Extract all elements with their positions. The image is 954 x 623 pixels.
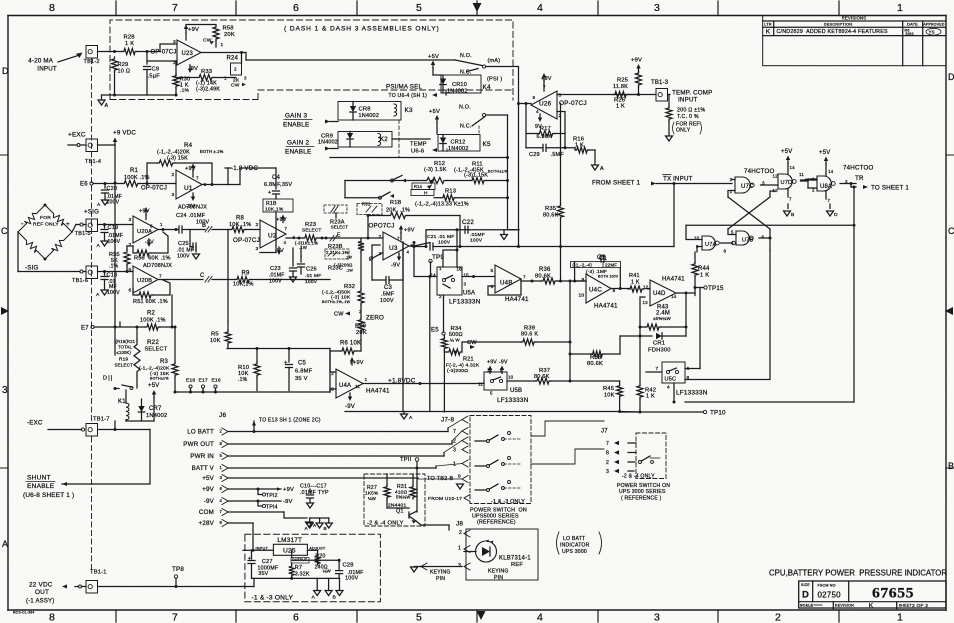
svg-text:1: 1 <box>897 612 903 623</box>
svg-text:6: 6 <box>129 288 132 294</box>
svg-text:+9V: +9V <box>353 360 364 366</box>
svg-text:TB1-5: TB1-5 <box>73 231 91 237</box>
svg-text:3: 3 <box>464 282 467 287</box>
svg-text:TR: TR <box>855 175 864 182</box>
svg-text:B: B <box>948 461 954 471</box>
svg-text:10: 10 <box>508 375 514 380</box>
svg-text:.1W: .1W <box>299 245 307 250</box>
svg-text:.5MF: .5MF <box>381 292 395 298</box>
svg-text:INPUT: INPUT <box>37 66 57 73</box>
svg-text:+28V: +28V <box>199 520 215 527</box>
svg-text:10 Ω: 10 Ω <box>118 69 131 75</box>
svg-text:1N4002: 1N4002 <box>318 140 338 146</box>
svg-text:C21: C21 <box>427 234 437 240</box>
svg-text:OUT: OUT <box>35 589 49 596</box>
svg-text:SCALE: SCALE <box>800 604 814 608</box>
svg-text:R3: R3 <box>160 359 169 365</box>
svg-text:( REFERENCE ): ( REFERENCE ) <box>621 496 662 502</box>
svg-text:Q1: Q1 <box>396 509 404 515</box>
svg-text:DESCRIPTION: DESCRIPTION <box>824 23 852 27</box>
svg-text:REF ONLY: REF ONLY <box>33 222 59 228</box>
svg-text:-1 & -3 ONLY: -1 & -3 ONLY <box>252 594 294 601</box>
svg-text:OP-07CJ: OP-07CJ <box>233 237 260 244</box>
svg-text:4: 4 <box>667 385 670 390</box>
svg-text:3: 3 <box>559 93 562 99</box>
svg-text:SHUNT: SHUNT <box>27 475 51 482</box>
svg-text:B: B <box>202 223 206 229</box>
svg-text:(-3)1.15K: (-3)1.15K <box>464 173 488 179</box>
svg-text:¼W: ¼W <box>323 568 332 573</box>
svg-text:E16: E16 <box>212 378 221 384</box>
svg-text:11: 11 <box>478 382 483 387</box>
svg-text:R1B: R1B <box>266 201 277 207</box>
svg-text:12: 12 <box>773 174 779 179</box>
svg-text:8: 8 <box>49 2 55 14</box>
svg-text:2: 2 <box>439 294 442 299</box>
svg-text:FOR: FOR <box>40 215 51 221</box>
svg-text:100V: 100V <box>107 290 120 296</box>
svg-text:PSI/MA SEL: PSI/MA SEL <box>386 84 422 91</box>
svg-text:TP8: TP8 <box>172 566 184 573</box>
svg-text:BOTH±1%: BOTH±1% <box>488 170 508 174</box>
svg-text:100K .1%: 100K .1% <box>140 318 166 324</box>
svg-text:C28: C28 <box>343 562 354 568</box>
svg-text:N.O.: N.O. <box>460 53 472 59</box>
svg-text:UPS 3000: UPS 3000 <box>562 549 587 555</box>
svg-text:2: 2 <box>459 530 462 536</box>
svg-text:100V: 100V <box>177 254 190 260</box>
svg-text:R35: R35 <box>545 206 556 212</box>
svg-text:C26: C26 <box>306 267 317 273</box>
svg-text:TPII: TPII <box>400 457 412 463</box>
svg-text:R1: R1 <box>130 168 139 174</box>
svg-text:74HCTOO: 74HCTOO <box>843 165 874 172</box>
svg-text:7: 7 <box>789 197 792 202</box>
svg-text:+5V: +5V <box>428 54 439 60</box>
svg-text:.1%: .1% <box>109 264 119 270</box>
svg-text:1: 1 <box>160 222 163 227</box>
svg-text:REVISION: REVISION <box>835 604 854 608</box>
svg-text:C: C <box>200 273 205 279</box>
svg-text:7: 7 <box>453 429 456 435</box>
svg-text:D: D <box>802 590 809 601</box>
svg-text:5: 5 <box>491 268 494 274</box>
svg-text:3: 3 <box>453 448 456 454</box>
svg-text:OP-07CJ: OP-07CJ <box>559 100 587 107</box>
svg-text:6: 6 <box>533 95 536 100</box>
svg-text:A: A <box>409 415 413 421</box>
svg-text:7: 7 <box>606 441 609 447</box>
svg-text:GAIN 2: GAIN 2 <box>287 140 309 147</box>
svg-text:R24: R24 <box>227 56 239 62</box>
svg-text:+9V: +9V <box>404 228 415 234</box>
svg-text:(-1,-2,-4): (-1,-2,-4) <box>573 263 593 268</box>
svg-text:C25: C25 <box>178 241 189 247</box>
svg-text:RCS-CL-394: RCS-CL-394 <box>13 611 35 615</box>
svg-text:10K: 10K <box>604 393 615 399</box>
svg-text:1: 1 <box>730 189 733 194</box>
svg-text:U25: U25 <box>283 548 296 555</box>
svg-text:5: 5 <box>129 267 132 273</box>
svg-text:E18: E18 <box>186 378 195 384</box>
svg-text:ENABLE: ENABLE <box>283 122 309 129</box>
svg-text:K4: K4 <box>483 84 491 91</box>
svg-text:.1W: .1W <box>346 269 353 273</box>
svg-text:+5V: +5V <box>148 383 159 389</box>
svg-text:(-3) 1.5K: (-3) 1.5K <box>424 167 447 173</box>
svg-text:R14: R14 <box>414 184 423 189</box>
svg-text:J7-8: J7-8 <box>441 417 454 424</box>
svg-text:E: E <box>337 233 341 239</box>
svg-text:7: 7 <box>656 366 659 371</box>
svg-text:-: - <box>21 219 24 228</box>
svg-text:ONLY: ONLY <box>676 128 691 134</box>
svg-text:CR12: CR12 <box>451 140 466 146</box>
svg-text:(-1 ASSY): (-1 ASSY) <box>26 599 54 605</box>
svg-text:U2: U2 <box>268 233 277 240</box>
svg-text:1 K: 1 K <box>616 104 625 110</box>
svg-text:4: 4 <box>536 109 539 114</box>
svg-text:C19: C19 <box>108 225 119 231</box>
svg-text:B: B <box>324 526 327 531</box>
svg-text:(-1,-2,-4)13.33 K±1%: (-1,-2,-4)13.33 K±1% <box>415 202 469 208</box>
svg-text:TO U6-4 (SH 1): TO U6-4 (SH 1) <box>389 93 428 99</box>
svg-text:K2: K2 <box>380 137 388 143</box>
svg-text:-1 & -3 ONLY: -1 & -3 ONLY <box>491 499 525 505</box>
svg-text:E5: E5 <box>431 328 439 334</box>
svg-text:C10---C17: C10---C17 <box>300 484 327 490</box>
svg-text:C18: C18 <box>107 273 118 279</box>
svg-text:TB1-1: TB1-1 <box>90 570 107 576</box>
svg-text:U4B: U4B <box>500 280 513 287</box>
svg-text:CR10: CR10 <box>452 82 467 88</box>
svg-text:7: 7 <box>523 275 526 280</box>
svg-text:8: 8 <box>150 224 153 229</box>
svg-text:INDICATOR: INDICATOR <box>560 543 590 549</box>
svg-text:-9V: -9V <box>391 263 400 269</box>
svg-text:¼W: ¼W <box>368 496 377 501</box>
svg-text:7: 7 <box>159 274 162 279</box>
svg-text:BOTH±.1%,.1W: BOTH±.1%,.1W <box>322 300 351 304</box>
svg-text:2: 2 <box>256 222 259 228</box>
svg-text:80.6K: 80.6K <box>543 213 559 219</box>
svg-text:4: 4 <box>537 2 543 14</box>
svg-text:OP-07CJ: OP-07CJ <box>141 186 167 192</box>
svg-text:C: C <box>948 226 954 236</box>
svg-text:R4: R4 <box>184 142 193 149</box>
svg-text:A: A <box>312 595 316 601</box>
svg-text:ENABLE: ENABLE <box>27 483 55 490</box>
svg-text:4: 4 <box>537 612 543 623</box>
svg-text:.01MF TYP: .01MF TYP <box>300 490 329 496</box>
svg-text:+SIG: +SIG <box>84 209 99 216</box>
svg-text:REVISIONS: REVISIONS <box>842 16 866 21</box>
svg-text:U7A: U7A <box>705 242 716 248</box>
svg-text:1 K: 1 K <box>646 394 655 400</box>
svg-text:CW: CW <box>231 83 240 89</box>
svg-text:U4D: U4D <box>653 291 666 297</box>
svg-text:ENABLE: ENABLE <box>285 149 311 156</box>
svg-text:KLB7314-1: KLB7314-1 <box>499 556 531 562</box>
svg-text:YS: YS <box>929 29 935 34</box>
svg-text:10: 10 <box>579 293 585 299</box>
svg-text:.1%: .1% <box>180 88 189 94</box>
svg-text:22MF: 22MF <box>605 263 617 268</box>
svg-text:+: + <box>268 190 271 196</box>
svg-text:11.8K: 11.8K <box>613 84 628 90</box>
svg-text:4: 4 <box>407 250 410 255</box>
svg-text:TB1-6: TB1-6 <box>72 278 88 284</box>
svg-text:R21: R21 <box>463 357 474 363</box>
svg-text:R41: R41 <box>629 273 640 279</box>
svg-text:80.6K: 80.6K <box>587 361 603 367</box>
svg-text:U6-6: U6-6 <box>411 149 424 155</box>
svg-text:TPI4: TPI4 <box>266 505 278 511</box>
svg-text:100V: 100V <box>470 238 483 244</box>
svg-text:R8: R8 <box>236 216 245 222</box>
svg-text:TB1-4: TB1-4 <box>85 159 101 165</box>
svg-text:-9V: -9V <box>283 499 293 505</box>
svg-text:LTR: LTR <box>764 23 772 27</box>
svg-text:TO SHEET 1: TO SHEET 1 <box>871 185 909 192</box>
svg-text:HA4741: HA4741 <box>366 388 390 395</box>
svg-text:±5%¼W: ±5%¼W <box>653 316 671 321</box>
svg-text:A: A <box>600 166 604 172</box>
svg-text:C22: C22 <box>462 219 474 226</box>
svg-text:13: 13 <box>643 300 649 305</box>
svg-text:U4C: U4C <box>589 287 602 294</box>
svg-text:J7: J7 <box>601 429 608 435</box>
svg-text:(-1,-2,-4)20K: (-1,-2,-4)20K <box>139 366 170 372</box>
svg-text:22 VDC: 22 VDC <box>29 582 53 589</box>
svg-text:100V: 100V <box>107 200 120 206</box>
svg-text:INPUT: INPUT <box>673 176 693 183</box>
svg-text:R5: R5 <box>211 332 219 338</box>
svg-text:.01 MF: .01 MF <box>438 234 454 240</box>
svg-text:02750: 02750 <box>818 591 842 600</box>
svg-text:+9 VDC: +9 VDC <box>113 130 136 137</box>
svg-text:(mA): (mA) <box>488 58 501 64</box>
svg-text:R22: R22 <box>147 339 159 346</box>
svg-text:LF13333N: LF13333N <box>497 397 529 404</box>
svg-text:SELECT: SELECT <box>115 363 134 368</box>
svg-text:J8: J8 <box>456 521 463 528</box>
svg-text:+9V: +9V <box>202 486 214 493</box>
svg-text:TEMP. COMP: TEMP. COMP <box>672 90 713 97</box>
svg-text:HA4741: HA4741 <box>662 277 685 283</box>
svg-text:-2 & -4 ONLY: -2 & -4 ONLY <box>367 521 404 527</box>
svg-text:TB1-7: TB1-7 <box>93 417 110 423</box>
svg-text:3: 3 <box>256 246 259 252</box>
svg-text:CW: CW <box>334 312 344 318</box>
svg-text:PIN: PIN <box>494 575 503 581</box>
svg-text:BATT V: BATT V <box>192 465 215 472</box>
svg-text:F(-2,-4) 4.32K: F(-2,-4) 4.32K <box>446 363 480 369</box>
svg-text:.1%: .1% <box>238 377 248 383</box>
svg-text:FSCM NO: FSCM NO <box>818 583 836 587</box>
svg-text:1 K: 1 K <box>700 273 709 279</box>
svg-text:100K .1%: 100K .1% <box>124 175 150 181</box>
svg-text:INPUT: INPUT <box>678 97 698 104</box>
svg-text:N.O.: N.O. <box>459 105 471 111</box>
svg-text:R13: R13 <box>445 189 456 195</box>
svg-text:R2: R2 <box>147 311 156 317</box>
svg-text:TO E13 SH 1 (ZONE 2C): TO E13 SH 1 (ZONE 2C) <box>259 418 321 424</box>
svg-text:TB1-3: TB1-3 <box>651 80 669 86</box>
svg-text:U1: U1 <box>184 185 193 192</box>
svg-text:HA4741: HA4741 <box>505 296 529 303</box>
svg-text:D: D <box>948 72 954 82</box>
svg-text:R19: R19 <box>119 357 128 362</box>
svg-text:ZERO: ZERO <box>366 315 384 322</box>
svg-text:U20B: U20B <box>137 278 152 284</box>
svg-text:SIZE: SIZE <box>801 583 810 587</box>
svg-text:6: 6 <box>293 2 299 14</box>
svg-text:-2 & -4 ONLY: -2 & -4 ONLY <box>622 474 655 480</box>
svg-text:PWR IN: PWR IN <box>190 453 214 460</box>
svg-text:3: 3 <box>220 475 223 480</box>
svg-text:J6: J6 <box>219 412 227 419</box>
svg-text:3: 3 <box>606 469 609 475</box>
svg-text:H: H <box>424 191 428 196</box>
svg-text:R6 10K: R6 10K <box>340 341 361 347</box>
svg-text:1: 1 <box>439 266 442 271</box>
svg-text:5: 5 <box>731 230 734 235</box>
svg-text:5: 5 <box>416 612 422 623</box>
svg-text:C: C <box>1 226 8 236</box>
svg-text:14: 14 <box>828 169 834 174</box>
svg-text:C1: C1 <box>599 256 608 262</box>
svg-text:+: + <box>66 221 70 228</box>
svg-text:1: 1 <box>458 546 461 552</box>
svg-text:K: K <box>766 28 771 35</box>
svg-text:6.8MF: 6.8MF <box>295 369 313 375</box>
svg-text:FROM U10-17: FROM U10-17 <box>428 496 462 502</box>
svg-text:LO BATT: LO BATT <box>187 429 214 436</box>
svg-text:20K, .1%: 20K, .1% <box>386 208 410 214</box>
svg-text:5: 5 <box>416 2 422 14</box>
svg-text:8: 8 <box>724 249 727 254</box>
svg-text:1N4002: 1N4002 <box>359 113 380 119</box>
svg-text:7: 7 <box>196 176 199 181</box>
svg-text:1 K: 1 K <box>575 143 584 149</box>
svg-text:2: 2 <box>129 242 132 248</box>
svg-text:1: 1 <box>365 377 368 382</box>
svg-text:74HCTOO: 74HCTOO <box>744 168 775 175</box>
svg-text:UPS 3000 SERIES: UPS 3000 SERIES <box>619 489 666 495</box>
svg-text:-9V: -9V <box>345 404 355 410</box>
svg-text:3: 3 <box>654 612 660 623</box>
svg-text:1N4002: 1N4002 <box>447 89 468 95</box>
svg-text:FROM SHEET 1: FROM SHEET 1 <box>592 180 640 187</box>
svg-text:+9V: +9V <box>188 27 199 33</box>
svg-text:(-3)200Ω: (-3)200Ω <box>334 263 353 268</box>
svg-text:3.32K: 3.32K <box>295 572 310 578</box>
svg-text:5: 5 <box>220 453 223 458</box>
svg-text:1K5%: 1K5% <box>365 491 379 496</box>
svg-text:D: D <box>103 376 107 382</box>
svg-text:D: D <box>2 66 9 76</box>
svg-text:U5A: U5A <box>463 291 475 297</box>
svg-text:TOTAL: TOTAL <box>118 345 132 350</box>
svg-text:¼ W: ¼ W <box>450 338 460 343</box>
svg-text:9: 9 <box>582 277 585 283</box>
svg-text:HA4741: HA4741 <box>594 303 618 310</box>
svg-text:35V: 35V <box>258 571 268 577</box>
svg-text:14: 14 <box>671 294 677 299</box>
svg-text:PIN: PIN <box>436 576 445 582</box>
svg-text:(REFERENCE): (REFERENCE) <box>477 520 516 526</box>
svg-text:2: 2 <box>234 67 237 72</box>
svg-text:A: A <box>105 103 109 109</box>
svg-text:1N4002: 1N4002 <box>448 146 469 152</box>
svg-text:2: 2 <box>220 429 223 434</box>
svg-text:2: 2 <box>379 234 382 240</box>
svg-text:( DASH 1 & DASH 3 ASSEMBLIES O: ( DASH 1 & DASH 3 ASSEMBLIES ONLY) <box>284 26 440 33</box>
svg-text:GAIN 3: GAIN 3 <box>285 113 307 120</box>
svg-text:B: B <box>791 212 795 218</box>
svg-text:+5V: +5V <box>429 109 440 115</box>
svg-text:+5V: +5V <box>819 150 830 156</box>
svg-text:PWR OUT: PWR OUT <box>183 441 214 448</box>
svg-text:COM: COM <box>199 509 214 516</box>
svg-text:100V: 100V <box>380 298 394 304</box>
svg-text:BOTH ±.1%: BOTH ±.1% <box>200 149 224 154</box>
svg-text:7: 7 <box>220 509 223 514</box>
svg-text:80.6 K: 80.6 K <box>521 332 538 338</box>
svg-text:1: 1 <box>221 42 224 47</box>
svg-text:4: 4 <box>220 498 223 503</box>
svg-text:C3: C3 <box>384 285 393 291</box>
svg-text:(-3)2.49K: (-3)2.49K <box>196 87 220 93</box>
svg-text:3: 3 <box>2 385 8 396</box>
svg-text:R45: R45 <box>603 386 614 392</box>
svg-text:CR8: CR8 <box>359 107 371 113</box>
svg-text:C24 .01MF: C24 .01MF <box>176 213 206 219</box>
svg-text:2: 2 <box>775 612 781 623</box>
svg-text:R33: R33 <box>201 69 212 75</box>
svg-text:7: 7 <box>172 612 178 623</box>
svg-text:U5C: U5C <box>665 377 677 383</box>
svg-text:LO BATT: LO BATT <box>563 536 586 542</box>
svg-text:100V: 100V <box>108 239 121 245</box>
svg-text:+9V: +9V <box>487 360 497 366</box>
svg-text:-EXC: -EXC <box>27 420 43 427</box>
svg-text:7: 7 <box>285 226 288 231</box>
svg-text:1: 1 <box>220 465 223 470</box>
svg-text:R7: R7 <box>295 565 303 571</box>
svg-text:1N4002: 1N4002 <box>146 413 167 419</box>
svg-text:2 OF 2: 2 OF 2 <box>912 603 928 609</box>
svg-text:14: 14 <box>790 165 796 170</box>
svg-text:3: 3 <box>654 2 660 14</box>
svg-text:C27: C27 <box>262 559 273 565</box>
svg-text:U7D: U7D <box>781 180 793 186</box>
svg-text:U7B: U7B <box>742 238 753 244</box>
svg-text:8: 8 <box>49 612 55 623</box>
svg-text:A: A <box>97 202 101 208</box>
svg-text:7: 7 <box>397 236 400 241</box>
svg-text:7: 7 <box>172 2 178 14</box>
svg-text:.01MF: .01MF <box>470 232 485 238</box>
svg-text:SELECT: SELECT <box>145 347 168 353</box>
svg-text:.01 MF: .01 MF <box>305 273 321 279</box>
svg-text:6: 6 <box>762 235 765 240</box>
svg-text:U20A: U20A <box>137 229 152 235</box>
svg-text:SELECT: SELECT <box>331 225 348 230</box>
svg-text:1: 1 <box>224 76 227 81</box>
svg-text:+5V: +5V <box>202 475 214 482</box>
